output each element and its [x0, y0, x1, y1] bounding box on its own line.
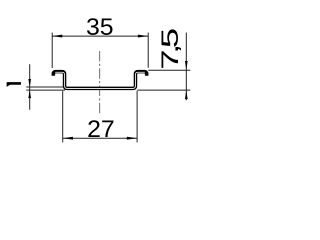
svg-text:35: 35	[86, 14, 114, 41]
svg-text:7,5: 7,5	[156, 29, 183, 69]
svg-text:27: 27	[87, 116, 115, 143]
